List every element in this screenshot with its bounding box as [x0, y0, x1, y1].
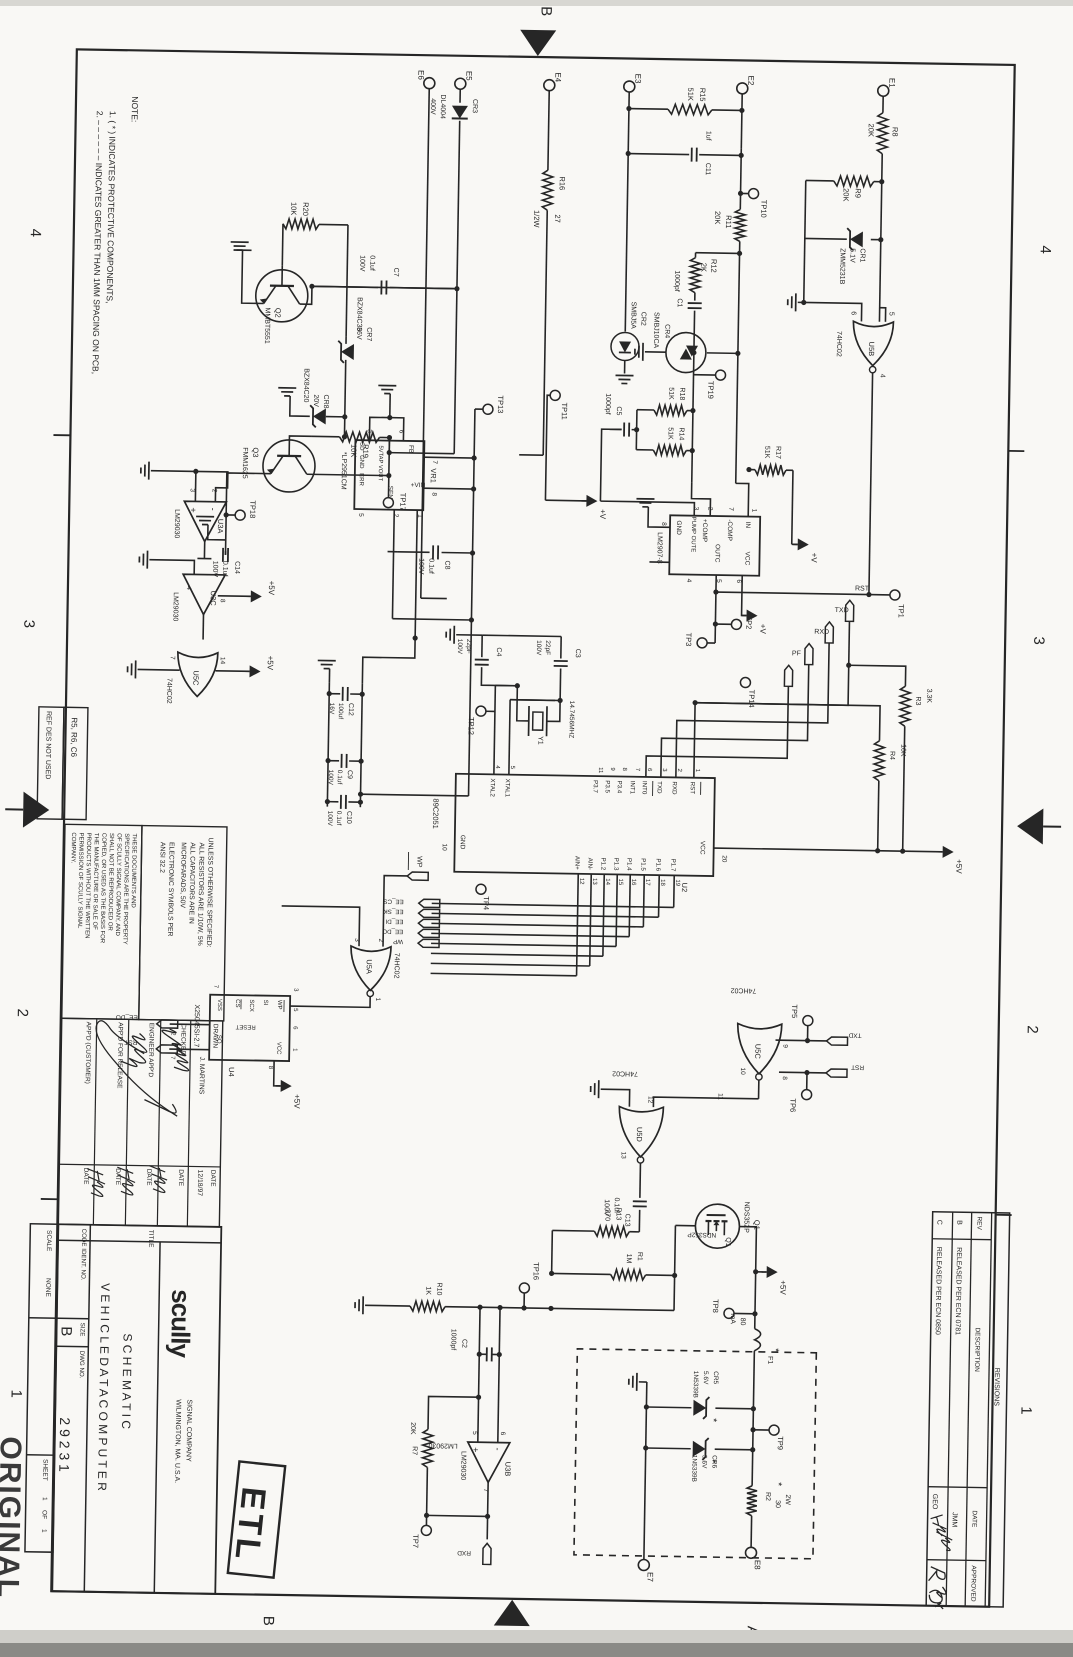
svg-text:INT0: INT0: [641, 781, 648, 795]
svg-text:PUMP OUTE: PUMP OUTE: [690, 517, 697, 553]
svg-text:CODE IDENT. NO.: CODE IDENT. NO.: [79, 1229, 87, 1281]
svg-text:EE_CS: EE_CS: [383, 898, 403, 905]
svg-text:12: 12: [646, 1096, 653, 1104]
svg-text:1: 1: [40, 1529, 47, 1533]
svg-text:SMBJ5A: SMBJ5A: [629, 302, 636, 330]
svg-text:30: 30: [774, 1500, 781, 1508]
svg-text:100V: 100V: [417, 558, 424, 575]
svg-text:U3C: U3C: [209, 591, 218, 607]
svg-text:11: 11: [717, 1093, 724, 1100]
svg-text:ENGINEER APP'D: ENGINEER APP'D: [147, 1023, 155, 1078]
svg-text:0.1uf: 0.1uf: [335, 811, 342, 826]
svg-text:0.1uf: 0.1uf: [427, 558, 434, 574]
svg-text:NDS352P: NDS352P: [742, 1202, 750, 1234]
svg-text:FB: FB: [407, 445, 414, 453]
svg-text:R11: R11: [724, 215, 733, 228]
svg-text:OF: OF: [40, 1510, 47, 1519]
svg-text:LM2907-8: LM2907-8: [655, 532, 663, 564]
svg-text:B: B: [260, 1616, 277, 1626]
svg-text:100V: 100V: [358, 255, 365, 272]
svg-text:CR3: CR3: [471, 99, 478, 113]
svg-text:WP: WP: [276, 1000, 282, 1010]
svg-text:R18: R18: [678, 387, 685, 400]
svg-text:5.1V: 5.1V: [848, 248, 855, 263]
svg-text:1: 1: [374, 997, 381, 1001]
svg-text:89C2051: 89C2051: [431, 798, 441, 829]
svg-text:100V: 100V: [326, 811, 333, 827]
svg-text:100V: 100V: [535, 640, 542, 656]
svg-text:CR5: CR5: [712, 1371, 719, 1385]
svg-text:R20: R20: [301, 202, 310, 216]
svg-text:VCC: VCC: [699, 841, 706, 855]
svg-text:SCALE: SCALE: [45, 1230, 52, 1252]
svg-text:CR8: CR8: [322, 394, 329, 408]
svg-text:7: 7: [431, 460, 438, 464]
svg-text:VCC: VCC: [743, 552, 750, 566]
svg-text:4: 4: [27, 229, 44, 238]
svg-text:1/2W: 1/2W: [532, 210, 541, 229]
svg-text:1: 1: [7, 1389, 24, 1398]
svg-text:TP6: TP6: [788, 1098, 797, 1112]
svg-text:1: 1: [1017, 1406, 1034, 1415]
svg-text:PF: PF: [792, 650, 801, 657]
svg-text:LM29030: LM29030: [173, 509, 180, 538]
svg-text:TP5: TP5: [790, 1004, 799, 1018]
svg-text:100V: 100V: [327, 770, 334, 786]
svg-text:DATE: DATE: [145, 1169, 152, 1187]
svg-text:1N5339B: 1N5339B: [690, 1455, 697, 1482]
svg-text:C10: C10: [345, 811, 352, 824]
svg-text:U5B: U5B: [867, 342, 876, 357]
svg-text:R7: R7: [411, 1446, 418, 1455]
svg-text:P1.6: P1.6: [654, 858, 661, 871]
svg-text:DL4004: DL4004: [439, 94, 446, 119]
svg-text:R9: R9: [853, 188, 862, 198]
svg-text:ETL: ETL: [227, 1485, 273, 1565]
svg-text:1: 1: [750, 509, 757, 513]
svg-text:CS: CS: [234, 999, 240, 1007]
svg-text:R1: R1: [636, 1252, 643, 1261]
svg-text:8: 8: [660, 522, 667, 526]
svg-text:BZX84C36: BZX84C36: [355, 297, 363, 331]
svg-text:TP7: TP7: [411, 1534, 420, 1548]
svg-text:5: 5: [357, 513, 364, 517]
svg-text:R16: R16: [558, 176, 567, 190]
svg-text:NONE: NONE: [44, 1278, 51, 1298]
svg-text:B: B: [537, 6, 554, 16]
svg-text:1M: 1M: [625, 1254, 632, 1264]
svg-text:WILMINGTON, MA. U.S.A.: WILMINGTON, MA. U.S.A.: [173, 1399, 181, 1483]
svg-text:GND: GND: [459, 835, 466, 850]
svg-text:C9: C9: [346, 770, 353, 779]
svg-text:THESE DOCUMENTS AND: THESE DOCUMENTS AND: [130, 833, 137, 908]
svg-text:TXD: TXD: [835, 607, 849, 614]
svg-text:C7: C7: [392, 268, 399, 277]
svg-text:P1.5: P1.5: [639, 858, 646, 871]
svg-text:TP13: TP13: [496, 395, 505, 413]
svg-text:C1: C1: [676, 298, 683, 307]
svg-text:6: 6: [499, 1432, 506, 1436]
svg-text:F1: F1: [766, 1356, 773, 1364]
svg-text:U4: U4: [227, 1067, 236, 1077]
svg-text:R17: R17: [774, 446, 781, 459]
svg-text:TXD: TXD: [656, 781, 663, 794]
svg-text:3.3K: 3.3K: [925, 689, 932, 704]
svg-text:ZMM5231B: ZMM5231B: [838, 248, 846, 285]
svg-text:U3A: U3A: [216, 519, 225, 534]
svg-text:R3: R3: [914, 696, 921, 705]
svg-text:RXD: RXD: [457, 1549, 471, 1556]
svg-text:JMM: JMM: [950, 1512, 957, 1527]
svg-text:RXD: RXD: [814, 629, 829, 636]
svg-text:DATE: DATE: [177, 1169, 184, 1187]
svg-text:74HC02: 74HC02: [165, 678, 172, 704]
svg-text:LM29030: LM29030: [459, 1451, 466, 1480]
svg-text:E1: E1: [887, 78, 896, 88]
svg-text:TP12: TP12: [467, 717, 476, 735]
svg-text:TP16: TP16: [532, 1262, 541, 1280]
svg-text:6: 6: [735, 579, 742, 583]
svg-text:R12: R12: [709, 259, 718, 273]
svg-text:2: 2: [1024, 1025, 1041, 1034]
svg-text:SIZE: SIZE: [79, 1323, 86, 1337]
svg-text:RELEASED PER ECN 0850: RELEASED PER ECN 0850: [934, 1247, 942, 1335]
svg-text:10K: 10K: [899, 744, 906, 757]
svg-text:REVISIONS: REVISIONS: [992, 1368, 1000, 1407]
svg-text:*LP2951CM: *LP2951CM: [340, 452, 348, 490]
svg-text:19: 19: [674, 879, 680, 886]
svg-text:13: 13: [591, 878, 597, 885]
svg-text:WP: WP: [415, 856, 422, 868]
svg-text:NOTE:: NOTE:: [130, 96, 140, 122]
svg-text:+V: +V: [598, 509, 607, 520]
svg-text:TP8: TP8: [711, 1299, 720, 1313]
svg-text:P3.5: P3.5: [604, 780, 611, 793]
svg-text:12: 12: [578, 878, 584, 885]
svg-text:+5V: +5V: [267, 581, 276, 596]
svg-text:4: 4: [185, 586, 192, 590]
svg-text:20K: 20K: [841, 188, 850, 202]
svg-text:SHEET: SHEET: [41, 1459, 48, 1481]
svg-text:10K: 10K: [289, 202, 298, 216]
svg-text:TP14: TP14: [747, 690, 756, 708]
svg-text:80: 80: [739, 1318, 746, 1326]
svg-text:SCX: SCX: [248, 999, 254, 1011]
svg-text:WP: WP: [393, 938, 403, 945]
svg-text:RESET: RESET: [235, 1023, 255, 1029]
svg-text:C5: C5: [615, 406, 622, 415]
svg-text:20K: 20K: [867, 123, 876, 137]
svg-text:U5C: U5C: [191, 670, 200, 686]
svg-text:TP11: TP11: [560, 402, 569, 420]
svg-text:5.6V: 5.6V: [702, 1371, 709, 1385]
svg-text:4: 4: [1037, 245, 1054, 254]
svg-text:RST: RST: [124, 1038, 137, 1045]
svg-text:EE_SK: EE_SK: [383, 908, 404, 915]
svg-text:VSS: VSS: [216, 999, 222, 1011]
svg-text:GND: GND: [358, 455, 364, 469]
svg-text:APP'D (CUSTOMER): APP'D (CUSTOMER): [84, 1022, 92, 1084]
svg-text:P1.4: P1.4: [625, 858, 632, 871]
svg-text:5.6V: 5.6V: [700, 1455, 707, 1469]
svg-text:5VTAP VOUT: 5VTAP VOUT: [377, 445, 384, 481]
svg-text:C2: C2: [460, 1339, 467, 1348]
svg-text:14: 14: [219, 657, 226, 665]
svg-text:74HC02: 74HC02: [612, 1069, 638, 1076]
svg-text:8: 8: [219, 599, 226, 603]
svg-text:16V: 16V: [328, 703, 335, 715]
svg-text:APP'D FOR RELEASE: APP'D FOR RELEASE: [116, 1022, 124, 1089]
svg-text:15: 15: [617, 878, 623, 885]
svg-text:S C H E M A T I C: S C H E M A T I C: [119, 1333, 135, 1429]
svg-text:P3.7: P3.7: [592, 780, 599, 793]
svg-text:14.7456MHZ: 14.7456MHZ: [567, 701, 575, 739]
svg-text:4: 4: [685, 579, 692, 583]
svg-text:10K: 10K: [349, 444, 358, 458]
svg-text:4: 4: [879, 374, 886, 378]
svg-text:mA: mA: [729, 1313, 736, 1324]
svg-text:R15: R15: [698, 88, 707, 102]
svg-text:CR4: CR4: [663, 324, 670, 338]
svg-text:E6: E6: [416, 70, 425, 80]
svg-text:EE_DO: EE_DO: [116, 1013, 138, 1020]
svg-text:*: *: [707, 1418, 718, 1422]
svg-text:ANSI 32.2: ANSI 32.2: [158, 842, 166, 873]
svg-text:20K: 20K: [409, 1422, 416, 1435]
svg-text:+V: +V: [758, 624, 767, 635]
svg-text:-: -: [208, 508, 218, 511]
svg-text:TP4: TP4: [482, 896, 491, 910]
svg-text:C3: C3: [574, 649, 581, 658]
svg-text:LM29030: LM29030: [171, 592, 178, 621]
svg-text:20: 20: [720, 855, 727, 863]
svg-text:C13: C13: [623, 1214, 630, 1227]
svg-text:GEO: GEO: [931, 1494, 938, 1510]
svg-text:E3: E3: [633, 74, 642, 84]
svg-text:B: B: [58, 1326, 75, 1336]
svg-text:51K: 51K: [666, 427, 673, 440]
svg-text:P1.3: P1.3: [612, 858, 619, 871]
svg-text:U2: U2: [680, 882, 689, 892]
svg-text:TP9: TP9: [776, 1436, 785, 1450]
svg-text:74HC02: 74HC02: [392, 953, 399, 979]
svg-text:3: 3: [20, 620, 37, 629]
svg-text:1N5339B: 1N5339B: [692, 1371, 699, 1398]
svg-text:Q3: Q3: [251, 447, 260, 457]
svg-text:+VIN: +VIN: [411, 482, 426, 489]
svg-text:Y1: Y1: [536, 736, 543, 745]
svg-text:22pF: 22pF: [465, 639, 472, 654]
svg-text:RST: RST: [855, 585, 870, 592]
svg-text:CR6: CR6: [710, 1455, 717, 1469]
svg-text:20K: 20K: [713, 211, 722, 225]
svg-text:P1.7: P1.7: [669, 859, 676, 872]
svg-text:AIN+: AIN+: [573, 856, 580, 870]
svg-text:1K: 1K: [424, 1286, 431, 1295]
svg-text:scully: scully: [165, 1289, 196, 1359]
svg-text:13: 13: [620, 1152, 627, 1160]
svg-text:TP1: TP1: [897, 604, 906, 618]
svg-text:E5: E5: [464, 71, 473, 81]
svg-text:R14: R14: [677, 427, 684, 440]
svg-text:SIGNAL COMPANY: SIGNAL COMPANY: [184, 1399, 192, 1462]
svg-text:COMPANY.: COMPANY.: [70, 832, 77, 863]
svg-text:OUTC: OUTC: [713, 544, 720, 563]
svg-text:27: 27: [553, 214, 562, 222]
svg-text:FMM1625: FMM1625: [241, 447, 249, 479]
svg-text:TP10: TP10: [759, 200, 768, 218]
svg-text:B: B: [955, 1220, 962, 1225]
svg-text:BZX84C20: BZX84C20: [302, 368, 310, 402]
svg-text:0.1uf: 0.1uf: [368, 255, 375, 271]
svg-text:+V: +V: [809, 553, 818, 564]
svg-text:MICROFARADS, 50V: MICROFARADS, 50V: [179, 842, 187, 908]
svg-text:8: 8: [430, 492, 437, 496]
svg-text:3: 3: [189, 488, 196, 492]
svg-text:C11: C11: [704, 163, 711, 176]
svg-text:R8: R8: [891, 127, 900, 137]
svg-text:RELEASED PER ECN 0781: RELEASED PER ECN 0781: [954, 1247, 962, 1335]
svg-text:TP17: TP17: [398, 493, 407, 511]
svg-text:ALL CAPACITORS ARE IN: ALL CAPACITORS ARE IN: [187, 842, 195, 924]
svg-text:-: -: [493, 1447, 503, 1450]
svg-text:C4: C4: [495, 647, 502, 656]
svg-text:AIN-: AIN-: [586, 858, 593, 870]
svg-text:270: 270: [603, 1209, 610, 1221]
svg-text:74HC02: 74HC02: [835, 331, 842, 357]
svg-text:DATE: DATE: [209, 1170, 216, 1188]
svg-text:11: 11: [597, 767, 603, 774]
svg-text:7: 7: [169, 656, 176, 660]
svg-text:ERR: ERR: [358, 473, 364, 486]
svg-text:TP3: TP3: [684, 633, 693, 647]
svg-text:3: 3: [692, 507, 699, 511]
svg-text:10: 10: [739, 1067, 746, 1075]
svg-text:REF DES NOT USED: REF DES NOT USED: [44, 711, 52, 779]
svg-text:R2: R2: [764, 1492, 771, 1501]
svg-text:1uf: 1uf: [704, 131, 711, 141]
svg-text:TP18: TP18: [248, 500, 257, 518]
svg-text:SD: SD: [358, 442, 364, 451]
svg-text:100uf: 100uf: [337, 703, 344, 720]
svg-text:22pF: 22pF: [544, 640, 551, 655]
svg-text:U5C: U5C: [753, 1044, 762, 1060]
svg-text:2W: 2W: [784, 1494, 791, 1505]
svg-text:8: 8: [781, 1076, 788, 1080]
svg-text:ORIGINAL: ORIGINAL: [0, 1436, 27, 1599]
svg-text:SEN: SEN: [386, 486, 393, 500]
svg-text:DATE: DATE: [82, 1168, 89, 1186]
svg-text:E4: E4: [553, 72, 562, 82]
svg-text:R4: R4: [888, 751, 895, 760]
svg-text:APPROVED: APPROVED: [969, 1565, 977, 1602]
svg-text:TXD: TXD: [848, 1031, 861, 1038]
svg-text:NDS352P: NDS352P: [687, 1231, 716, 1238]
svg-text:VCC: VCC: [275, 1042, 281, 1055]
svg-text:RST: RST: [851, 1063, 864, 1070]
svg-text:P3.4: P3.4: [616, 780, 623, 793]
svg-text:+5V: +5V: [266, 656, 275, 671]
svg-text:IN: IN: [744, 522, 751, 529]
svg-text:51K: 51K: [667, 387, 674, 400]
svg-text:MMBT5551: MMBT5551: [263, 308, 271, 344]
svg-text:16: 16: [630, 879, 636, 886]
svg-text:SI: SI: [262, 1000, 268, 1006]
svg-text:1000pf: 1000pf: [604, 393, 611, 415]
svg-text:U3B: U3B: [503, 1462, 512, 1477]
svg-text:Q2: Q2: [273, 308, 282, 318]
svg-text:1000pf: 1000pf: [449, 1329, 456, 1351]
svg-text:SMBJ10CA: SMBJ10CA: [652, 312, 660, 349]
svg-text:GND: GND: [675, 520, 682, 535]
svg-text:2: 2: [211, 489, 218, 493]
svg-text:X25045SI-2.7: X25045SI-2.7: [192, 1004, 200, 1047]
svg-text:100V: 100V: [456, 639, 463, 655]
svg-text:51K: 51K: [763, 446, 770, 459]
svg-text:INT1: INT1: [629, 781, 636, 795]
svg-text:2: 2: [392, 514, 399, 518]
svg-text:EE_DO: EE_DO: [382, 928, 403, 935]
svg-text:2 9 2 3 1: 2 9 2 3 1: [56, 1417, 73, 1472]
svg-text:EE_DI: EE_DI: [385, 918, 403, 925]
svg-text:XTAL1: XTAL1: [504, 779, 511, 798]
svg-text:DWG NO.: DWG NO.: [78, 1351, 85, 1379]
svg-text:VR1: VR1: [429, 468, 438, 483]
svg-text:SO: SO: [215, 1035, 221, 1044]
svg-text:5: 5: [471, 1431, 478, 1435]
svg-text:-COMP: -COMP: [726, 519, 733, 541]
svg-text:12/18/97: 12/18/97: [196, 1170, 203, 1197]
svg-text:RXD: RXD: [671, 781, 678, 795]
svg-text:1: 1: [41, 1497, 48, 1501]
svg-text:CR7: CR7: [365, 327, 372, 341]
svg-text:20V: 20V: [312, 394, 319, 407]
svg-text:R5, R6, C6: R5, R6, C6: [69, 717, 79, 757]
svg-text:E2: E2: [746, 75, 755, 85]
svg-text:1000pf: 1000pf: [673, 270, 680, 292]
svg-text:2: 2: [14, 1008, 31, 1017]
svg-text:3: 3: [1030, 636, 1047, 645]
svg-text:RST: RST: [689, 782, 696, 795]
svg-text:C: C: [935, 1220, 942, 1225]
svg-text:17: 17: [644, 879, 650, 886]
svg-text:400V: 400V: [429, 98, 436, 115]
svg-text:9: 9: [781, 1044, 788, 1048]
svg-text:C12: C12: [347, 703, 354, 716]
svg-text:DATE: DATE: [970, 1510, 977, 1528]
svg-text:P1.2: P1.2: [599, 857, 606, 870]
svg-text:TITLE: TITLE: [147, 1230, 154, 1248]
svg-text:0.1uf: 0.1uf: [336, 770, 343, 785]
svg-text:+: +: [188, 507, 198, 512]
svg-text:+5V: +5V: [778, 1280, 787, 1295]
svg-text:5: 5: [888, 312, 895, 316]
svg-text:TP2: TP2: [744, 616, 753, 630]
svg-text:+5V: +5V: [954, 859, 963, 874]
svg-text:+: +: [471, 1447, 481, 1452]
svg-text:J. MARTINS: J. MARTINS: [198, 1057, 206, 1095]
svg-text:R13: R13: [615, 1207, 622, 1220]
svg-text:74HC02: 74HC02: [730, 986, 756, 993]
svg-text:TP19: TP19: [706, 381, 715, 399]
svg-text:CR1: CR1: [858, 248, 865, 262]
svg-text:*: *: [772, 1482, 783, 1486]
svg-text:REV: REV: [975, 1216, 982, 1230]
svg-text:18: 18: [659, 879, 665, 886]
svg-text:6: 6: [850, 311, 857, 315]
svg-text:R10: R10: [435, 1282, 442, 1295]
svg-text:DESCRIPTION: DESCRIPTION: [973, 1327, 981, 1372]
